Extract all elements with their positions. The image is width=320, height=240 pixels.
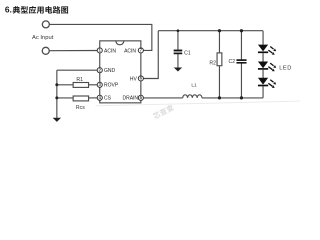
pin 1 circle: [97, 48, 102, 53]
watermark 芯查查: [152, 104, 174, 120]
inductor L1: [183, 95, 202, 98]
svg-text:6.: 6.: [5, 5, 12, 15]
ground symbol under C1: [174, 68, 182, 72]
wire: R2 top lead: [218, 31, 220, 53]
wire: L1 to bottom rail right corner: [202, 97, 263, 99]
wire: DRAIN pin 5 to L1: [143, 97, 183, 99]
svg-text:ACIN: ACIN: [104, 48, 116, 54]
pin 4 circle: [97, 95, 102, 100]
junction dot Rcs ground bus: [55, 96, 58, 99]
pin 6 circle: [138, 76, 143, 81]
junction dot C2 top rail: [240, 29, 243, 32]
pin 7 circle: [138, 48, 143, 53]
svg-text:Rcs: Rcs: [76, 105, 85, 111]
svg-text:L1: L1: [191, 83, 197, 89]
junction dot R2 top rail: [218, 29, 221, 32]
watermark line: [95, 101, 300, 106]
resistor R2: [217, 53, 222, 66]
capacitor C2 plates: [236, 60, 246, 63]
LED D1: [258, 45, 268, 53]
svg-text:ACIN: ACIN: [124, 48, 136, 54]
LED D2: [258, 62, 268, 69]
wire: C2 bottom lead: [240, 63, 242, 98]
LED D3 emission arrows: [268, 80, 276, 88]
wire: C2 top lead: [240, 31, 242, 60]
wire: C1 top lead: [177, 31, 179, 50]
junction dot C1 top rail: [177, 29, 180, 32]
svg-text:C2: C2: [228, 59, 235, 65]
svg-text:CS: CS: [104, 96, 112, 102]
LED D1 emission arrows: [268, 47, 276, 55]
svg-text:ROVP: ROVP: [104, 83, 119, 89]
svg-text:LED: LED: [279, 65, 292, 71]
wire: HV pin 6 up to top rail: [143, 31, 158, 79]
wire: GND pin 2 to ground bus: [57, 69, 97, 71]
pin 2 circle: [97, 68, 102, 73]
LED D3: [258, 78, 268, 86]
IC U1 notch: [116, 41, 124, 45]
svg-text:HV: HV: [130, 76, 138, 82]
pin 3 circle: [97, 82, 102, 87]
svg-text:DRAIN: DRAIN: [122, 96, 138, 102]
capacitor C1 plates: [174, 51, 183, 54]
wire: ground bus vertical: [56, 70, 58, 118]
junction dot C2 bottom rail: [240, 96, 243, 99]
wire: LED string column: [262, 31, 264, 98]
svg-text:Ac Input: Ac Input: [32, 35, 54, 41]
wire: AC neutral from terminal T2 to pin 1: [49, 50, 97, 52]
svg-text:GND: GND: [104, 68, 116, 74]
svg-text:C1: C1: [184, 50, 191, 56]
wire: top rail: [158, 30, 263, 32]
terminal T2: [42, 47, 49, 54]
svg-text:R1: R1: [76, 77, 83, 83]
wire: R1 right lead to pin 3: [89, 84, 98, 86]
pin 5 circle: [138, 95, 143, 100]
wire: R1 left lead: [57, 84, 73, 86]
junction dot R1 ground bus: [55, 83, 58, 86]
wire: Rcs right lead to pin 4: [89, 97, 98, 99]
title 典型应用电路图: [13, 6, 20, 14]
ground symbol under ground bus: [53, 118, 61, 122]
wire: C1 bottom lead to ground: [177, 54, 179, 68]
wire: Rcs left lead: [57, 97, 73, 99]
terminal T1: [42, 21, 49, 28]
wire: R2 bottom lead: [218, 66, 220, 98]
resistor Rcs: [73, 96, 88, 101]
resistor R1: [73, 83, 88, 88]
svg-text:R2: R2: [209, 60, 216, 66]
LED D2 emission arrows: [268, 63, 276, 71]
wire: AC line from terminal T1 to pin 7: [49, 24, 151, 50]
junction dot R2 bottom rail: [218, 96, 221, 99]
IC U1 body: [100, 41, 141, 103]
